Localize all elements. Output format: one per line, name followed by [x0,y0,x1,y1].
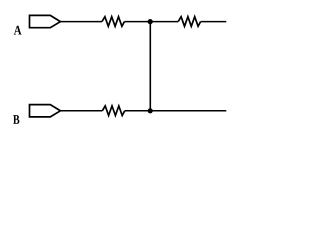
junction node1 [148,19,153,24]
wire R2 to right [201,21,227,23]
wire R1 to node1 [124,21,150,23]
wire node2 to right [150,110,226,112]
label A [14,26,22,35]
wire port A to R1 [60,21,102,23]
wire node1 to R2 [150,21,178,23]
input port B [30,105,61,117]
resistor R2 [178,17,200,27]
wire port B to R3 [60,110,102,112]
resistor R3 [102,106,124,116]
input port A [30,15,61,27]
vertical wire node1 to node2 [149,22,151,111]
resistor R1 [102,17,124,27]
wire R3 to node2 [125,110,150,112]
junction node2 [148,108,153,113]
label B [13,115,19,124]
